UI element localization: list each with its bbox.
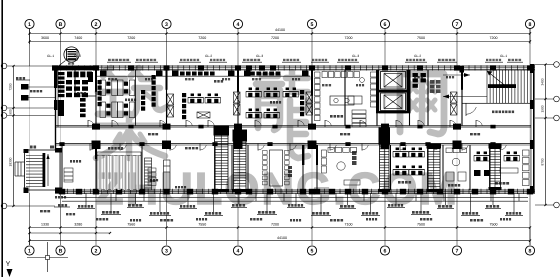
svg-text:5: 5 [311, 248, 314, 254]
facade labels above top wall [47, 54, 523, 62]
top axis circle 4 [233, 19, 242, 28]
top dimension line row 1 [28, 32, 531, 34]
svg-text:B: B [59, 248, 63, 254]
svg-text:1330: 1330 [41, 223, 49, 227]
svg-text:2: 2 [95, 22, 98, 28]
lower room A marks [64, 160, 81, 182]
office1 mid partition [135, 70, 137, 126]
workstation cluster U2 [100, 102, 117, 118]
upper rooms bulkhead line [96, 75, 310, 77]
vertical axis grid lines [30, 29, 531, 245]
top axis circle 2 [91, 19, 100, 28]
svg-text:8: 8 [529, 22, 532, 28]
striped lightwell zone [97, 147, 141, 190]
bottom axis circle 4 [233, 246, 242, 255]
workstation cluster L3 [474, 152, 490, 162]
svg-text:Y: Y [6, 261, 11, 268]
bottom wall window mullion dashes [68, 189, 524, 194]
svg-text:44100: 44100 [275, 28, 285, 32]
door arc below stair [466, 103, 476, 116]
callout labels row 2 [96, 218, 511, 222]
callout labels below building [77, 193, 523, 215]
workstation cluster U5 [188, 94, 204, 104]
kitchen counters [315, 72, 367, 127]
stair block lower left [24, 146, 62, 194]
svg-text:1: 1 [28, 248, 31, 254]
wall cabinets office2 [180, 72, 215, 119]
braced column axis4 upper [234, 92, 241, 115]
top axis circle B [56, 19, 65, 28]
elevator shaft walls [376, 70, 411, 114]
watermark layer [96, 68, 460, 214]
svg-text:GL-3: GL-3 [256, 54, 263, 58]
cabinet column office2 left [182, 93, 186, 119]
svg-text:7200: 7200 [271, 223, 279, 227]
svg-text:GL-1: GL-1 [500, 54, 507, 58]
svg-text:7200: 7200 [271, 36, 279, 40]
upper office corner blocks [100, 71, 309, 77]
workstation cluster U12 [246, 109, 262, 119]
bottom dimension line row 2 overall [28, 228, 531, 246]
mini ladder shaft room B [145, 158, 152, 190]
leader labels left of building [16, 77, 55, 101]
svg-text:4: 4 [237, 248, 240, 254]
conference table and chairs [263, 150, 293, 186]
building left exterior wall [54, 66, 58, 150]
building bottom exterior wall [55, 189, 535, 195]
top dimension line row 2 [28, 29, 531, 44]
svg-text:7: 7 [456, 22, 459, 28]
workstation cluster U13 [264, 109, 280, 119]
corridor bottom wall [55, 141, 531, 150]
svg-text:900: 900 [9, 109, 13, 115]
svg-text:B: B [59, 22, 63, 28]
bottom axis circle 7 [452, 246, 461, 255]
bottom axis circle 6 [380, 246, 389, 255]
ladder shaft T5 [489, 144, 502, 191]
watermark character 2 [256, 72, 308, 158]
svg-text:7200: 7200 [345, 36, 353, 40]
svg-text:GL-2: GL-2 [414, 54, 421, 58]
right vertical dimension line [541, 63, 547, 206]
corridor top wall [55, 124, 531, 130]
office area labels [125, 80, 281, 104]
svg-text:3280: 3280 [74, 223, 82, 227]
side entrance steps left [15, 162, 25, 176]
left axis circle C [1, 105, 55, 111]
top axis circle 1 [25, 19, 34, 28]
watermark character 1 [96, 68, 167, 158]
svg-text:4: 4 [237, 22, 240, 28]
svg-text:7: 7 [456, 248, 459, 254]
svg-text:7500: 7500 [417, 223, 425, 227]
workstation cluster U2b [118, 102, 135, 118]
electrical room solid top wall [55, 66, 96, 71]
svg-text:1900: 1900 [541, 105, 545, 112]
top axis circle 3 [162, 19, 171, 28]
svg-text:ZHULONG.COM: ZHULONG.COM [96, 163, 460, 214]
ground / canopy lines below building [62, 193, 528, 201]
right axis circle y=118 [535, 115, 559, 121]
ladder shaft T1 [214, 126, 230, 193]
svg-text:7400: 7400 [74, 36, 82, 40]
upper partition walls [95, 70, 463, 126]
lower room B marks [148, 147, 198, 190]
bottom axis circle 2 [91, 246, 100, 255]
bottom dimension labels [41, 223, 498, 227]
workstation cluster U1 [100, 80, 117, 96]
machine room label [492, 111, 494, 114]
svg-text:3: 3 [165, 248, 168, 254]
top axis circle 8 [525, 19, 534, 28]
workstation cluster U6 [205, 94, 221, 104]
svg-text:7200: 7200 [127, 36, 135, 40]
svg-text:1: 1 [28, 22, 31, 28]
corridor text marks [148, 133, 480, 135]
lower office marks [398, 181, 411, 184]
elevator car 1 [381, 72, 406, 90]
watermark character 3 [400, 74, 444, 134]
survey cross marker [27, 242, 68, 272]
wall cabinets office3 [250, 72, 280, 76]
svg-text:7200: 7200 [198, 36, 206, 40]
lower wall window mullions [119, 191, 512, 193]
svg-text:44100: 44100 [277, 236, 287, 240]
top axis circle 6 [380, 19, 389, 28]
svg-text:7500: 7500 [490, 223, 498, 227]
corridor door arcs top wall [88, 120, 482, 127]
svg-text:6: 6 [384, 22, 387, 28]
workstation cluster U1b [118, 80, 135, 96]
workstation cluster U9 [246, 88, 262, 98]
room 410-428 racks [413, 73, 426, 88]
workstation cluster U11 [283, 88, 299, 98]
bottom axis circle B [56, 246, 65, 255]
building right exterior wall [530, 64, 535, 193]
right axis circle y=64.5 [535, 62, 559, 68]
svg-text:GL-1: GL-1 [47, 54, 54, 58]
right axis circle y=205 [535, 202, 559, 208]
cabinet column office3 right [300, 90, 304, 116]
top dimension labels [41, 28, 498, 40]
svg-text:18300: 18300 [9, 157, 13, 166]
ladder shaft T3 [379, 128, 391, 193]
sheet border left edge [1, 0, 3, 277]
workstation cluster L2 [409, 148, 425, 158]
electrical room inner wall [75, 70, 96, 96]
svg-text:7200: 7200 [9, 83, 13, 90]
lounge sofa group 1 [322, 148, 361, 186]
svg-text:GL-3: GL-3 [352, 54, 359, 58]
svg-text:7560: 7560 [127, 223, 135, 227]
bottom axis circle 8 [525, 246, 534, 255]
svg-text:3: 3 [165, 22, 168, 28]
workstation cluster U10 [264, 88, 280, 98]
left axis circle B [1, 113, 55, 119]
ladder shaft T4 [427, 144, 442, 193]
svg-text:5: 5 [311, 22, 314, 28]
svg-text:8: 8 [529, 248, 532, 254]
braced column axis3 upper [167, 94, 174, 117]
elevator car 2 [381, 93, 406, 111]
workstation cluster L1 [393, 148, 409, 158]
bottom axis circle 5 [307, 246, 316, 255]
bottom axis circle 1 [25, 246, 34, 255]
cabinet column office1 right [152, 75, 156, 107]
braced column axis5 upper [306, 92, 313, 115]
bottom left sub dimension line [28, 232, 111, 234]
top wall window mullion dashes [61, 65, 524, 70]
svg-text:6: 6 [384, 248, 387, 254]
svg-text:GL-2: GL-2 [74, 54, 81, 58]
svg-text:2: 2 [95, 248, 98, 254]
bottom dimension line row 1 [28, 226, 531, 228]
cabinet column office1 left [98, 80, 102, 106]
corridor door arcs bottom wall [90, 144, 506, 151]
electrical room panels [58, 72, 93, 118]
braced column axis7 upper [451, 92, 458, 115]
workstation cluster L2b [409, 166, 425, 176]
svg-text:3600: 3600 [41, 36, 49, 40]
building top exterior wall [55, 66, 535, 70]
top wall piers [52, 65, 533, 70]
svg-text:3400: 3400 [541, 78, 545, 85]
cabinets right lower office [474, 150, 529, 186]
workstation cluster L1b [393, 166, 409, 176]
svg-text:GL-2: GL-2 [205, 54, 212, 58]
right axis circle y=99 [535, 96, 559, 102]
lower partition walls [62, 145, 490, 190]
svg-text:7100: 7100 [345, 223, 353, 227]
top axis circle 7 [452, 19, 461, 28]
left axis circle E [1, 63, 55, 69]
svg-text:7550: 7550 [198, 223, 206, 227]
Y axis arrow symbol [6, 261, 13, 277]
svg-text:8700: 8700 [541, 158, 545, 165]
svg-text:7500: 7500 [417, 36, 425, 40]
workstation cluster L4 [504, 152, 520, 162]
svg-text:7200: 7200 [490, 36, 498, 40]
elevator hall label [430, 80, 441, 93]
kitchen2 counters [348, 72, 376, 107]
labels below stair block [40, 196, 75, 215]
top axis circle 5 [307, 19, 316, 28]
bottom axis circle 3 [162, 246, 171, 255]
upper room labels [108, 76, 454, 86]
detail callout bubble [59, 47, 80, 66]
lounge sofa group 2 [446, 148, 467, 187]
cabinet column office1 mid [141, 90, 145, 111]
stair top right [443, 66, 531, 103]
ladder shaft T2 [233, 130, 248, 193]
left vertical dimension line [9, 65, 15, 207]
left axis circle A [1, 203, 55, 209]
